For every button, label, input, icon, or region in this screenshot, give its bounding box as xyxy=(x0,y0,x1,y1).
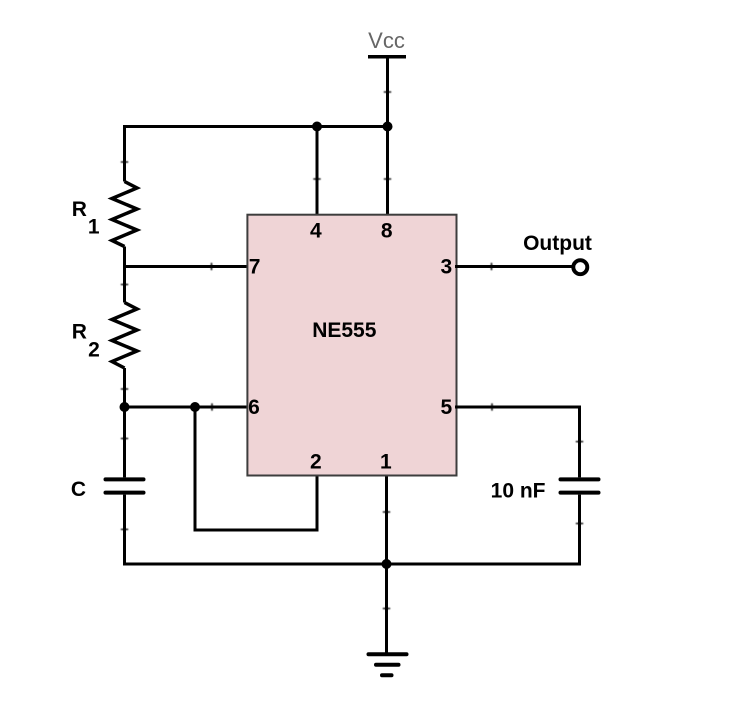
svg-text:1: 1 xyxy=(380,450,392,473)
svg-text:C: C xyxy=(71,478,86,501)
output terminal circle xyxy=(573,260,587,274)
junction dot pin8/top rail xyxy=(383,122,393,132)
junction dot left rail / pin 6 xyxy=(120,402,130,412)
wire 10nF top stem xyxy=(578,406,581,478)
Vcc supply bar xyxy=(368,55,406,59)
ground xyxy=(369,654,407,675)
svg-text:R: R xyxy=(72,198,87,221)
wire capacitor C bottom stem xyxy=(123,495,126,566)
svg-text:5: 5 xyxy=(441,396,453,419)
capacitor 10nF xyxy=(561,479,599,492)
svg-text:7: 7 xyxy=(249,256,261,279)
op-amp U1 NE555 body xyxy=(247,215,456,476)
wire ground stem xyxy=(385,564,388,653)
wire pin 4 stub xyxy=(316,127,319,217)
label R1 xyxy=(72,198,100,239)
svg-text:2: 2 xyxy=(88,339,100,362)
wire pin 6 xyxy=(125,406,250,409)
wire Vcc stem xyxy=(386,57,389,127)
wire bottom rail xyxy=(123,563,580,566)
wire joint markers xyxy=(122,92,583,609)
svg-text:4: 4 xyxy=(310,220,322,243)
svg-text:8: 8 xyxy=(381,220,393,243)
svg-text:10 nF: 10 nF xyxy=(491,479,546,502)
svg-text:6: 6 xyxy=(248,396,260,419)
resistor R1 xyxy=(112,182,137,247)
svg-text:Output: Output xyxy=(523,232,592,255)
svg-text:1: 1 xyxy=(88,216,100,239)
svg-text:2: 2 xyxy=(310,450,322,473)
junction dot pin4/top rail xyxy=(312,122,322,132)
svg-text:Vcc: Vcc xyxy=(368,28,405,53)
wire capacitor C top stem xyxy=(123,407,126,477)
wire pin 5 xyxy=(455,406,580,409)
capacitor C xyxy=(106,479,144,492)
wire pin 7 xyxy=(125,265,250,268)
wire top rail xyxy=(123,125,389,128)
wire left rail middle xyxy=(123,247,126,303)
svg-text:R: R xyxy=(72,320,87,343)
resistor R2 xyxy=(112,303,137,369)
wire pin 3 output xyxy=(455,265,572,268)
wire left rail upper xyxy=(123,125,126,182)
junction dot pin1 / bottom rail xyxy=(382,559,392,569)
wire pin 2 loop xyxy=(195,407,317,530)
label R2 xyxy=(72,320,100,361)
junction dot pin2 branch xyxy=(190,402,200,412)
wire 10nF bottom stem xyxy=(578,495,581,566)
wire pin 8 stub xyxy=(386,127,389,217)
svg-text:NE555: NE555 xyxy=(312,319,377,342)
wire pin 1 xyxy=(385,475,388,564)
wire left rail lower xyxy=(123,368,126,407)
svg-text:3: 3 xyxy=(441,256,453,279)
